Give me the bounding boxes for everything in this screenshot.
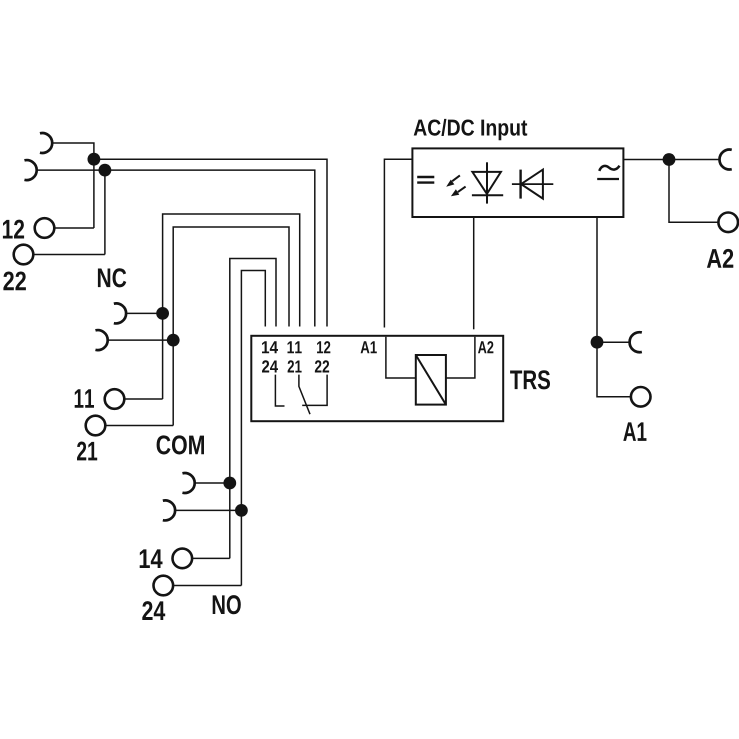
label A2 (707, 249, 733, 268)
terminal circle 22 (14, 245, 34, 265)
wire (52, 143, 94, 228)
wire (384, 159, 412, 327)
pin label 12 (317, 341, 330, 353)
wire (54, 227, 94, 229)
wire (241, 271, 265, 586)
label COM (157, 435, 204, 454)
junction dot (88, 153, 101, 166)
LED arrow 2 (451, 187, 466, 197)
pin label 22 (315, 360, 329, 372)
junction dot (167, 334, 180, 347)
terminal circle 21 (86, 416, 106, 436)
label 14 (140, 549, 163, 568)
pin label 21 (288, 360, 302, 372)
DC symbol (=) (417, 177, 434, 183)
wire (175, 509, 241, 511)
junction dot (235, 504, 248, 517)
wire (623, 159, 719, 161)
terminal circle 24 (154, 576, 174, 596)
wire (173, 227, 289, 426)
terminal circle A1 (631, 387, 651, 407)
label 21 (77, 442, 97, 461)
terminal circle A2 (718, 213, 738, 233)
junction dot (591, 336, 604, 349)
connector arc NC-2 (socket symbol) (24, 160, 36, 180)
connector arc A2 (socket symbol) (719, 150, 731, 170)
connector arc NO-2 (socket symbol) (163, 500, 175, 520)
terminal circle 11 (105, 389, 125, 409)
LED arrow 1 (446, 175, 460, 186)
wire (473, 217, 475, 329)
connector arc NC-1 (socket symbol) (40, 133, 52, 153)
connector arc NO-1 (socket symbol) (182, 473, 194, 493)
label A1 (623, 422, 646, 441)
label 11 (75, 389, 94, 408)
wire (192, 557, 230, 559)
wire (597, 341, 630, 343)
junction dot (663, 153, 676, 166)
pin label 11 (288, 341, 302, 353)
wire (173, 585, 241, 587)
pin label A2 (478, 341, 493, 353)
wire (105, 425, 173, 427)
wire (195, 482, 230, 484)
junction dot (99, 164, 112, 177)
junction dot (156, 307, 169, 320)
diode D2 (512, 170, 553, 199)
connector arc A1 (socket symbol) (630, 332, 642, 352)
wire (669, 160, 718, 223)
wire (386, 337, 416, 378)
LED D1 (472, 162, 503, 203)
wire (446, 337, 475, 378)
label AC/DC Input (414, 119, 528, 140)
connector arc COM-2 (socket symbol) (95, 330, 107, 350)
junction dot (223, 477, 236, 490)
wire (126, 312, 163, 314)
pin label 24 (262, 360, 278, 372)
wire (124, 398, 162, 400)
label 22 (3, 271, 26, 290)
AC/DC input module outline (412, 148, 623, 217)
relay coil K1 (416, 355, 446, 405)
pin label A1 (361, 341, 377, 353)
wire (108, 339, 174, 341)
label NO (213, 595, 241, 614)
wire (597, 217, 630, 397)
wire (33, 254, 105, 256)
AC symbol (~) (597, 166, 619, 179)
wire (230, 259, 276, 559)
contact terminal 22 (302, 375, 327, 406)
wire (104, 170, 106, 254)
wire (94, 159, 327, 326)
contact pole 21 (299, 375, 310, 415)
terminal circle 12 (35, 218, 55, 238)
label TRS (510, 370, 550, 389)
label NC (98, 268, 126, 287)
relay module TRS outline (251, 336, 503, 421)
label 24 (142, 601, 165, 620)
contact terminal 24 (275, 375, 284, 406)
wire (163, 214, 300, 399)
label 12 (3, 220, 24, 239)
wire (37, 170, 315, 326)
connector arc COM-1 (socket symbol) (114, 303, 126, 323)
terminal circle 14 (173, 549, 193, 569)
pin label 14 (262, 341, 278, 353)
